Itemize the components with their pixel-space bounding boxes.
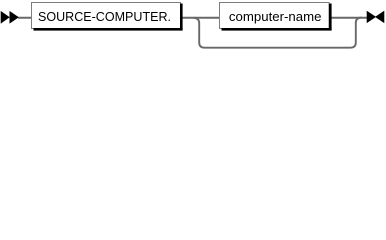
syntax diagram: SOURCE-COMPUTER paragraph <box>0 0 386 59</box>
end arrowheads >< (bowtie) <box>367 11 376 22</box>
svg-text:computer-name: computer-name <box>229 9 322 24</box>
start arrowheads >> <box>1 12 9 24</box>
variable box computer-name <box>220 3 332 31</box>
wire: main rail y=17.5 <box>18 17 368 19</box>
wire: optional bypass loop (down and under computer-name) <box>194 18 362 48</box>
keyword box SOURCE-COMPUTER. <box>32 3 183 31</box>
background <box>0 0 386 59</box>
svg-text:SOURCE-COMPUTER.: SOURCE-COMPUTER. <box>38 9 171 24</box>
